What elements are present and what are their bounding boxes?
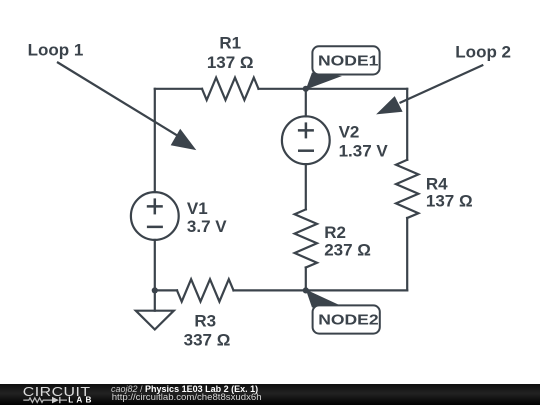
svg-text:http://circuitlab.com/che8t8sx: http://circuitlab.com/che8t8sxudx6h	[112, 392, 262, 403]
svg-text:1.37 V: 1.37 V	[339, 142, 389, 161]
svg-text:R3: R3	[194, 312, 216, 331]
svg-text:137 Ω: 137 Ω	[207, 53, 254, 72]
svg-text:R4: R4	[426, 174, 448, 193]
svg-text:Loop 2: Loop 2	[455, 43, 511, 62]
svg-text:LAB: LAB	[68, 395, 94, 404]
svg-text:NODE2: NODE2	[318, 312, 378, 329]
svg-text:NODE1: NODE1	[318, 53, 378, 70]
svg-text:Loop 1: Loop 1	[28, 40, 84, 59]
svg-text:337 Ω: 337 Ω	[184, 331, 231, 350]
svg-text:R1: R1	[219, 33, 241, 52]
svg-text:3.7 V: 3.7 V	[187, 217, 227, 236]
svg-text:237 Ω: 237 Ω	[324, 241, 371, 260]
svg-text:V2: V2	[339, 122, 360, 141]
svg-text:137 Ω: 137 Ω	[426, 192, 473, 211]
svg-text:V1: V1	[187, 199, 208, 218]
svg-text:R2: R2	[324, 223, 346, 242]
